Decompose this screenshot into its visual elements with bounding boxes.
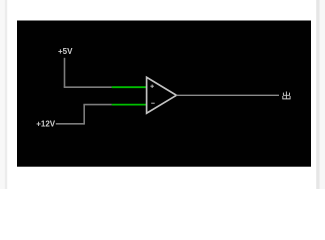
- node output label 出 (hand drawn): [283, 92, 290, 99]
- op-amp U1 triangle body: [147, 77, 177, 113]
- wire output: [176, 94, 279, 96]
- op-amp U1 plus pin mark: [150, 85, 154, 89]
- node +12V label: [36, 120, 56, 129]
- op-amp U1 minus pin mark: [151, 102, 155, 104]
- op-amp U1 non-inverting input lead (green): [112, 86, 147, 88]
- wire +5V horizontal: [64, 86, 112, 88]
- wire +12V horizontal upper: [83, 104, 111, 106]
- op-amp U1 inverting input lead (green): [112, 104, 147, 106]
- svg-text:+5V: +5V: [58, 47, 73, 56]
- node +5V label: [58, 47, 73, 56]
- svg-text:+12V: +12V: [36, 120, 56, 129]
- schematic canvas: [17, 21, 311, 167]
- wire +12V vertical: [83, 105, 85, 125]
- wire +12V horizontal lower: [56, 123, 84, 125]
- wire +5V vertical: [64, 58, 66, 87]
